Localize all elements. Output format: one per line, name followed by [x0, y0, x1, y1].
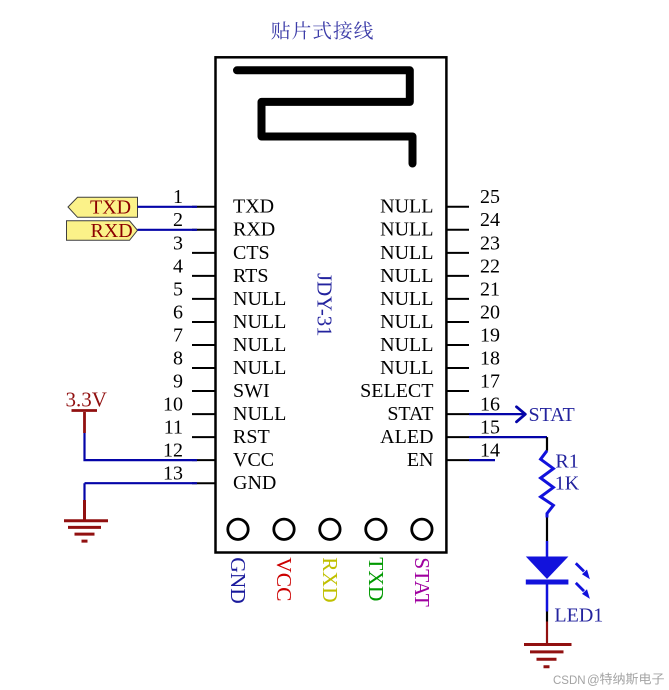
svg-text:ALED: ALED: [380, 426, 433, 448]
svg-text:1: 1: [173, 186, 183, 208]
svg-text:7: 7: [173, 324, 183, 346]
svg-text:RST: RST: [233, 426, 270, 448]
svg-text:R1: R1: [555, 451, 578, 473]
svg-text:16: 16: [480, 394, 500, 416]
svg-text:RXD: RXD: [233, 219, 275, 241]
svg-text:10: 10: [163, 394, 183, 416]
svg-text:NULL: NULL: [380, 196, 433, 218]
svg-text:15: 15: [480, 417, 500, 439]
svg-text:22: 22: [480, 255, 500, 277]
svg-text:17: 17: [480, 370, 500, 392]
svg-text:SWI: SWI: [233, 380, 270, 402]
svg-text:1K: 1K: [555, 472, 580, 494]
svg-text:RXD: RXD: [318, 557, 342, 602]
svg-text:RTS: RTS: [233, 265, 268, 287]
svg-text:GND: GND: [226, 557, 250, 604]
svg-text:6: 6: [173, 301, 183, 323]
svg-text:NULL: NULL: [380, 288, 433, 310]
svg-text:24: 24: [480, 209, 500, 231]
svg-text:NULL: NULL: [380, 357, 433, 379]
svg-text:NULL: NULL: [380, 219, 433, 241]
svg-text:NULL: NULL: [233, 403, 286, 425]
svg-text:TXD: TXD: [90, 197, 131, 219]
svg-text:LED1: LED1: [554, 605, 603, 627]
svg-text:25: 25: [480, 186, 500, 208]
svg-text:NULL: NULL: [380, 334, 433, 356]
svg-text:4: 4: [173, 255, 183, 277]
svg-text:NULL: NULL: [380, 242, 433, 264]
svg-text:@: @: [587, 673, 600, 687]
svg-text:19: 19: [480, 324, 500, 346]
svg-text:2: 2: [173, 209, 183, 231]
svg-text:CSDN: CSDN: [553, 675, 586, 687]
svg-text:21: 21: [480, 278, 500, 300]
svg-text:NULL: NULL: [380, 265, 433, 287]
svg-text:20: 20: [480, 301, 500, 323]
svg-text:11: 11: [164, 417, 183, 439]
svg-text:STAT: STAT: [529, 404, 575, 426]
svg-text:23: 23: [480, 232, 500, 254]
svg-text:3: 3: [173, 232, 183, 254]
svg-text:9: 9: [173, 370, 183, 392]
svg-text:GND: GND: [233, 472, 276, 494]
svg-text:NULL: NULL: [380, 311, 433, 333]
svg-text:EN: EN: [407, 449, 434, 471]
svg-text:12: 12: [163, 440, 183, 462]
svg-text:TXD: TXD: [233, 196, 274, 218]
svg-text:18: 18: [480, 347, 500, 369]
svg-text:8: 8: [173, 347, 183, 369]
svg-text:14: 14: [480, 440, 500, 462]
svg-text:NULL: NULL: [233, 311, 286, 333]
svg-text:SELECT: SELECT: [360, 380, 433, 402]
svg-text:VCC: VCC: [272, 557, 296, 601]
svg-text:3.3V: 3.3V: [66, 388, 107, 412]
svg-text:CTS: CTS: [233, 242, 270, 264]
svg-text:13: 13: [163, 463, 183, 485]
svg-text:NULL: NULL: [233, 288, 286, 310]
svg-text:STAT: STAT: [387, 403, 433, 425]
svg-text:TXD: TXD: [364, 557, 388, 601]
svg-text:RXD: RXD: [91, 220, 133, 242]
svg-text:JDY-31: JDY-31: [313, 273, 336, 337]
svg-text:STAT: STAT: [410, 557, 434, 607]
svg-text:5: 5: [173, 278, 183, 300]
svg-text:NULL: NULL: [233, 334, 286, 356]
svg-text:NULL: NULL: [233, 357, 286, 379]
svg-text:VCC: VCC: [233, 449, 274, 471]
